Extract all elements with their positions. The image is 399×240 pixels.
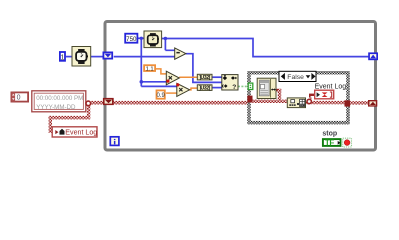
- svg-text:1: 1: [60, 54, 64, 61]
- svg-text:Event Log: Event Log: [65, 129, 97, 137]
- svg-text:750: 750: [126, 36, 137, 43]
- svg-text:00:00:00.000 PM: 00:00:00.000 PM: [36, 95, 83, 102]
- svg-text:]U32[: ]U32[: [199, 75, 211, 81]
- svg-text:?: ?: [232, 84, 236, 91]
- svg-text:1.1: 1.1: [146, 66, 154, 72]
- svg-text:YYYY-MM-DD: YYYY-MM-DD: [36, 104, 76, 111]
- svg-text:0.9: 0.9: [157, 93, 166, 99]
- svg-text:]U32[: ]U32[: [199, 85, 211, 91]
- svg-text:False: False: [287, 74, 304, 81]
- svg-text:0: 0: [17, 95, 21, 102]
- svg-text:stop: stop: [322, 130, 337, 137]
- svg-text:TF: TF: [325, 139, 334, 148]
